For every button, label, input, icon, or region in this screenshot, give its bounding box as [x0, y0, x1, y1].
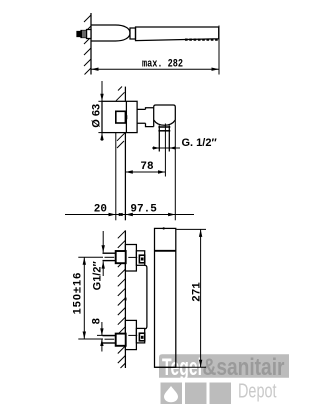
escutcheon plate (top view): [102, 101, 175, 151]
dimensions 20 / 97.5: [65, 120, 194, 220]
bottom union: small square: [139, 333, 144, 341]
bottom union: step piece: [136, 328, 144, 343]
neck between head and handle: [130, 28, 136, 39]
dimension 271: [155, 229, 207, 367]
wall line view2: [116, 87, 125, 221]
top union: boss center dash: [128, 256, 137, 258]
hub small rect (wall union seen from top): [116, 111, 126, 123]
dimension dia 63: [98, 81, 102, 141]
hub tab: [125, 115, 127, 119]
neck C: [137, 109, 145, 123]
handle cone: [136, 27, 219, 41]
dimension 150±16: [78, 257, 103, 339]
cover plate profile between unions: [145, 265, 147, 329]
wall hatching view2: [116, 87, 125, 149]
top union: small square: [139, 255, 144, 263]
body cap joint line: [155, 250, 176, 252]
section D: [146, 108, 154, 127]
top union: supply stub pipe: [103, 252, 116, 254]
wall hatching view3: [118, 231, 126, 368]
svg-text:20: 20: [94, 203, 107, 215]
bottom union: pipe center dash: [105, 338, 115, 340]
pipe nut: [158, 126, 170, 128]
svg-text:G1/2″: G1/2″: [92, 261, 104, 291]
bottom union: boss center dash: [128, 334, 137, 336]
svg-text:150±16: 150±16: [72, 272, 84, 315]
svg-text:Depot: Depot: [238, 381, 277, 403]
top union: pipe center dash: [105, 256, 115, 258]
bottom union: supply stub pipe: [103, 335, 116, 337]
shower head body: [91, 25, 219, 41]
droplet icon: [164, 386, 178, 402]
top union: step piece: [136, 251, 144, 265]
dimension G1/2 top left: [102, 231, 104, 276]
thread hatching on handle end: [185, 38, 219, 40]
outlet pipe: [158, 125, 160, 151]
cap dot: [163, 227, 165, 229]
wall line view1: [90, 13, 92, 75]
svg-text:78: 78: [140, 161, 154, 173]
bottom union: wall square: [116, 334, 126, 346]
mixer body column: [155, 227, 176, 367]
svg-text:97.5: 97.5: [130, 203, 157, 215]
G. 1/2 leader: [152, 147, 180, 149]
wall bracket fitting left of wall: [77, 30, 91, 39]
dimension 8: [97, 322, 116, 352]
dimension 78: [116, 124, 166, 221]
top union: nut boss: [103, 245, 145, 272]
watermark squares row: [161, 381, 277, 404]
watermark band Tegel&sanitair: [159, 354, 289, 381]
svg-text:Ø 63: Ø 63: [90, 104, 102, 128]
svg-text:G. 1/2″: G. 1/2″: [182, 137, 218, 149]
svg-text:&sanitair: &sanitair: [203, 354, 285, 381]
dome body: [154, 105, 176, 127]
wall line tick view3: [125, 298, 127, 301]
svg-text:271: 271: [191, 282, 203, 302]
svg-text:8: 8: [91, 318, 103, 324]
dimension max. 282: [91, 26, 219, 75]
top union: wall square: [116, 251, 126, 263]
wall hatching view1: [84, 15, 91, 75]
svg-text:max. 282: max. 282: [142, 58, 183, 70]
bottom union: nut boss: [103, 320, 145, 349]
wall line view3: [124, 230, 126, 368]
